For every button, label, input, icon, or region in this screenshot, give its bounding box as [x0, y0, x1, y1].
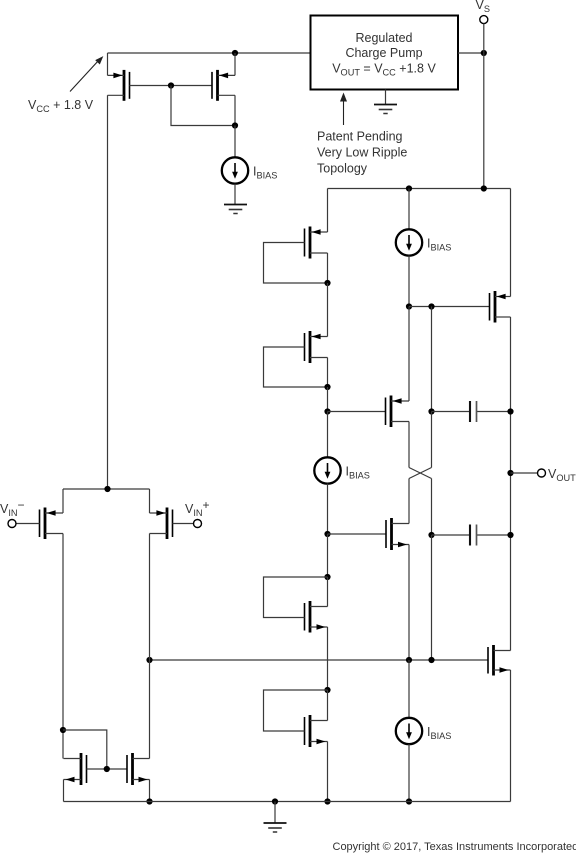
label VOUT: [548, 467, 576, 483]
node: M2 drain / IBIAS junction: [232, 122, 238, 128]
svg-text:Very Low Ripple: Very Low Ripple: [317, 146, 407, 160]
svg-text:IBIAS: IBIAS: [427, 725, 451, 741]
svg-text:VIN−: VIN−: [0, 498, 25, 518]
capacitor C1: [432, 401, 511, 422]
node: C1 / output rail junction: [507, 408, 513, 414]
annotation arrow patent pending: [340, 93, 347, 126]
transistor M14 mirror NMOS: [127, 753, 150, 785]
ground below charge pump: [374, 105, 397, 114]
wire: M11 drain down to mirror: [62, 534, 64, 759]
wire: C2 node down to output-gate rail: [431, 535, 433, 660]
node: rail / C2 branch junction: [428, 657, 434, 663]
wire: node down to diode NMOS column: [327, 534, 329, 577]
wire: gate bus to M2 drain (diode connection): [171, 86, 235, 126]
wire: M2 drain down: [234, 95, 236, 125]
svg-text:VIN+: VIN+: [185, 498, 210, 518]
label VIN+: [185, 498, 210, 518]
label IBIAS for I1: [253, 165, 277, 181]
wire: I2 down to M7 gate node: [327, 484, 329, 535]
node: M9 drain junction: [324, 687, 330, 693]
node: M8 drain junction: [324, 574, 330, 580]
wire: M14 source down: [149, 780, 151, 802]
svg-text:VS: VS: [476, 0, 490, 14]
label Regulated Charge Pump text: [332, 31, 436, 78]
node: rail / I3 junction: [406, 185, 412, 191]
transistor M11 input PMOS VIN-: [40, 489, 64, 539]
wire: gate lead to M7: [328, 533, 387, 535]
wire: output-gate rail: [150, 659, 489, 661]
transistor M13 mirror NMOS (diode): [64, 753, 87, 785]
current source I2 IBIAS: [314, 457, 340, 483]
wire: charge pump output to VS node: [458, 52, 484, 54]
wire: M10 source down to ground rail: [510, 670, 512, 802]
transistor M1 top-left PMOS: [108, 53, 130, 101]
label VIN-: [0, 498, 25, 518]
label IBIAS for I2: [346, 465, 370, 481]
wire: M3 drain down: [327, 253, 329, 283]
svg-text:IBIAS: IBIAS: [427, 237, 451, 253]
wire: diff pair tail rail: [63, 488, 150, 490]
ground main: [264, 823, 287, 832]
node: VS junction: [481, 50, 487, 56]
current source I4 IBIAS: [396, 718, 422, 744]
transistor M8 diode NMOS: [305, 577, 328, 633]
svg-text:Topology: Topology: [317, 162, 368, 176]
wire: mirror gate tap: [63, 730, 107, 769]
node: C2 / output rail junction: [507, 532, 513, 538]
svg-text:Charge Pump: Charge Pump: [345, 46, 422, 60]
wire: M9 source down to ground rail: [327, 742, 329, 802]
transistor M4 diode PMOS: [305, 283, 328, 363]
node: rail / VS junction: [481, 185, 487, 191]
wire: node down to I2: [327, 412, 329, 458]
node: junction top rail / M2 source: [232, 50, 238, 56]
wire: gate lead to M6: [328, 411, 386, 413]
wire: ground stem: [274, 802, 276, 824]
svg-text:IBIAS: IBIAS: [253, 165, 277, 181]
wire: crossover down to cap C2 node: [431, 479, 433, 536]
label copyright: [333, 841, 576, 853]
transistor M2 top PMOS (diode-connected): [212, 53, 235, 101]
wire: I1 to ground: [234, 184, 236, 205]
wire: M5 drain down output rail: [510, 317, 512, 651]
terminal VIN+: [194, 520, 202, 528]
annotation arrow to VCC+1.8V node: [70, 56, 103, 91]
node: M6 gate node: [324, 408, 330, 414]
node: compensation cap C1 node: [428, 408, 434, 414]
terminal VIN-: [8, 520, 16, 528]
label Patent Pending Very Low Ripple Topology: [317, 130, 407, 176]
current source I1 IBIAS: [222, 157, 248, 183]
node: M9 source / ground rail junction: [324, 798, 330, 804]
wire: M12 drain down to mirror: [149, 534, 151, 759]
wire: I3 down to bias node: [408, 256, 410, 307]
label IBIAS for I4: [427, 725, 451, 741]
node: rail / diff pair drain junction: [146, 657, 152, 663]
wire: mid branch down: [431, 307, 433, 412]
transistor M10 output NMOS: [488, 645, 511, 676]
wire: bottom ground rail: [64, 801, 511, 803]
wire: M11 gate lead: [16, 523, 40, 525]
transistor M12 input PMOS VIN+: [150, 489, 173, 539]
svg-text:VOUT: VOUT: [548, 467, 576, 483]
wire: M8 source down (crosses output-gate rail): [327, 627, 329, 690]
node: M11 drain / mirror gate tap: [60, 727, 66, 733]
svg-text:IBIAS: IBIAS: [346, 465, 370, 481]
transistor M5 cascode PMOS: [490, 189, 511, 323]
node: M14 source / ground rail junction: [146, 798, 152, 804]
node: M7 gate node: [324, 531, 330, 537]
wire: crossover diagonal A: [409, 468, 432, 479]
label IBIAS for I3: [427, 237, 451, 253]
wire: core supply rail: [328, 188, 511, 190]
wire: M1 drain down to diff pair tail: [107, 95, 109, 489]
node: gate bus junction: [104, 766, 110, 772]
wire: M9 gate loop: [264, 690, 328, 731]
svg-text:Copyright © 2017, Texas Instru: Copyright © 2017, Texas Instruments Inco…: [333, 841, 576, 853]
node: ground symbol junction: [272, 798, 278, 804]
node: M4 drain junction: [324, 384, 330, 390]
terminal VOUT: [538, 469, 546, 477]
svg-text:Patent Pending: Patent Pending: [317, 130, 403, 144]
wire: cap node down to crossover: [431, 412, 433, 468]
wire: I4 down to ground rail: [408, 744, 410, 801]
node: bias node mid: [428, 303, 434, 309]
wire: VOUT lead: [511, 472, 538, 474]
transistor M6 class-AB PMOS: [386, 396, 410, 428]
wire: column down to class-AB gate node: [327, 387, 329, 412]
transistor M7 class-AB NMOS: [386, 518, 409, 550]
block: Regulated Charge Pump box: [311, 16, 459, 90]
wire: M12 gate lead: [173, 523, 194, 525]
wire: M1-M2 gate bus: [130, 85, 213, 87]
wire: rail to I3: [408, 189, 410, 230]
svg-text:VCC + 1.8 V: VCC + 1.8 V: [28, 98, 94, 114]
wire: node to current source I1: [234, 126, 236, 158]
node: I4 / ground rail junction: [406, 798, 412, 804]
capacitor C2: [432, 525, 511, 546]
wire: rail node down to I4: [408, 660, 410, 718]
node: gate bus junction: [168, 82, 174, 88]
node: bias node left: [406, 303, 412, 309]
node: M3 drain junction: [324, 280, 330, 286]
wire: M8 gate loop: [264, 577, 328, 618]
terminal VS: [480, 16, 488, 24]
wire: M13 source to ground rail corner: [63, 780, 65, 802]
node: cap C2 node: [428, 532, 434, 538]
wire: VCC top rail: [108, 52, 311, 54]
transistor M3 diode PMOS: [305, 189, 328, 259]
wire: VS vertical down to core rail: [483, 24, 485, 189]
wire: bias lead to M5 gate: [409, 306, 490, 308]
wire: mirror gate bus: [87, 768, 128, 770]
node: rail / M7 source junction: [406, 657, 412, 663]
label VS: [476, 0, 490, 14]
transistor M9 diode NMOS: [305, 690, 328, 747]
wire: M3 gate loop: [264, 243, 328, 284]
wire: crossover down to M7 drain: [408, 479, 410, 524]
wire: M4 drain down: [327, 358, 329, 388]
wire: charge pump ground stem: [385, 90, 387, 105]
label VCC + 1.8 V: [28, 98, 94, 114]
svg-text:Regulated: Regulated: [356, 31, 413, 45]
wire: crossover diagonal B: [409, 468, 432, 479]
node: tail junction: [104, 486, 110, 492]
current source I3 IBIAS: [396, 229, 422, 255]
wire: M7 source down to output-gate rail: [408, 545, 410, 661]
ground below I1: [224, 205, 247, 214]
wire: M6 drain down to crossover: [408, 422, 410, 468]
wire: bias node down to M6 source: [408, 307, 410, 402]
wire: M4 gate loop: [264, 347, 328, 387]
node: VOUT junction: [507, 470, 513, 476]
